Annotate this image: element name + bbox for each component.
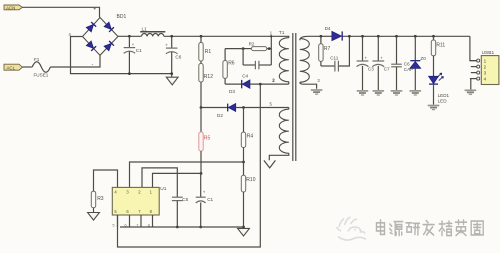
resistor R12 [200,61,202,64]
wire fuse to bridge bottom [50,55,100,67]
svg-text:R5: R5 [204,135,211,141]
wire node to D2 [201,107,228,109]
ground (under R10) [238,228,250,236]
svg-text:C3: C3 [368,66,374,71]
svg-text:+: + [203,189,206,194]
svg-text:R6: R6 [228,61,235,67]
ground (aux winding, arrow) [264,160,276,168]
watermark text 电源研发精英圈 [377,220,385,235]
svg-text:F1: F1 [34,57,40,62]
svg-text:2: 2 [484,65,487,70]
wire ACN to bridge top [22,7,99,17]
wire rail to USB pin1 [470,36,477,60]
resistor R7 (snubber) [320,35,323,38]
ground (under R3) [88,213,100,221]
svg-text:D2: D2 [217,113,223,118]
wire secondary rail [321,35,332,37]
wire bridge left vertex to bottom rail [71,37,172,74]
capacitor C8 with ground [395,35,398,38]
svg-text:U1: U1 [160,186,166,192]
capacitor C5 [172,196,183,198]
svg-text:5: 5 [270,102,273,107]
svg-text:+: + [380,55,383,60]
T1 aux winding [288,108,290,110]
port ACL [4,64,22,70]
svg-text:C1: C1 [207,197,213,202]
wire R6 to D3 [225,83,242,85]
svg-text:R10: R10 [246,177,255,183]
inductor L1 [142,33,164,36]
svg-text:FUSE1: FUSE1 [34,73,49,78]
svg-text:C6: C6 [175,55,181,60]
svg-text:T1: T1 [279,30,285,36]
resistor R2 [243,48,251,50]
svg-text:BD1: BD1 [117,14,127,20]
svg-text:LED1: LED1 [438,93,450,98]
resistor R6 [224,49,226,61]
wire IC pin3 to R4/R10 node [130,162,244,187]
svg-text:Z0: Z0 [420,56,426,61]
IC U1 [112,187,159,215]
bridge diode D-C (left-bottom edge) [86,41,96,51]
svg-text:R3: R3 [97,196,104,202]
resistor R5 (pink) [200,108,202,133]
diode D3 (clamp) [241,80,243,88]
resistor R11 [432,35,435,38]
wire HV rail (bridge to L1) [118,35,142,37]
svg-text:R2: R2 [249,42,255,47]
zener Z0 with ground [414,35,417,38]
svg-text:R4: R4 [247,133,254,139]
wire ground bus (IC bottom) [120,226,244,228]
svg-text:+: + [165,43,168,48]
diode D2 [227,104,229,112]
svg-text:LED: LED [438,98,448,103]
svg-text:2: 2 [272,78,275,83]
svg-text:1: 1 [270,31,273,36]
svg-text:R1: R1 [205,49,212,55]
fuse F1 FUSE1 [32,62,50,73]
svg-text:R12: R12 [204,74,213,80]
bridge diode D-D (bottom-right edge) [104,41,114,51]
watermark logo [337,217,358,231]
ground bell (secondary return) [311,89,323,91]
svg-text:3: 3 [484,71,487,76]
svg-text:3: 3 [317,78,320,83]
wire clamp right edge [270,36,272,65]
svg-text:C5: C5 [182,197,188,202]
capacitor C1 (bulk) [128,35,131,38]
svg-text:-: - [92,61,94,67]
wire R12 to node [200,82,202,108]
svg-text:C11: C11 [330,55,339,60]
capacitor C11 (snubber) [321,65,335,67]
resistor R1 [200,35,203,38]
resistor R4 [243,108,245,133]
T1 primary winding [273,36,289,37]
svg-text:1: 1 [484,59,487,64]
svg-text:+: + [365,55,368,60]
USB connector USB1 [481,56,499,85]
wire IC pin1 to R5/C1 node [153,173,202,187]
transformer T1 core [292,33,294,161]
svg-text:L1: L1 [142,26,148,32]
svg-text:C6: C6 [404,62,410,67]
wire ACL to fuse [22,66,32,68]
resistor R10 [243,162,245,175]
svg-text:+: + [132,42,135,47]
resistor R3 with ground [94,170,118,191]
wire clamp to R6 [225,48,243,50]
svg-text:ACN: ACN [6,5,15,10]
svg-text:+: + [93,7,96,13]
wire USB pin4 to ground [470,79,472,90]
T1 secondary winding [300,36,321,40]
svg-text:C1: C1 [136,48,142,53]
wire HV rail (L1 to transformer pin1) [164,35,273,37]
svg-text:C4: C4 [242,73,248,78]
svg-text:5: 5 [112,222,115,227]
svg-text:ACL: ACL [7,66,16,71]
svg-text:D3: D3 [229,89,235,94]
ground (primary, under C6) [166,77,178,85]
capacitor C7 (output) with ground [377,35,380,38]
bridge rectifier BD1 outline [83,18,119,56]
svg-text:R7: R7 [324,46,331,52]
LED1 with ground [429,76,439,83]
wire IC pin2 to C5 [142,168,177,197]
svg-text:USB1: USB1 [482,50,495,56]
capacitor C4 [242,49,244,65]
svg-text:4: 4 [484,77,487,82]
wire D3 to transformer pin2 [250,83,289,85]
wire D2 to transformer pin5 [236,107,289,109]
bridge diode D-B (top-right edge) [104,22,114,32]
bridge diode D-A (left-top edge) [86,22,96,32]
svg-text:D4: D4 [325,26,331,31]
port ACN [4,5,22,10]
diode D4 (output rectifier) [332,31,342,40]
capacitor C3 (output) with ground [361,35,364,38]
wire IC pin5 to drain return [118,84,261,247]
svg-text:C7: C7 [384,66,390,71]
capacitor C6 (filter) with ground [170,35,173,38]
svg-text:R11: R11 [436,42,445,48]
